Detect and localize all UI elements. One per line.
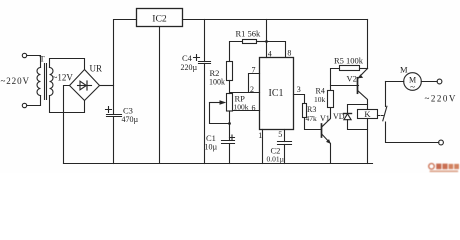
wire R1 left down to R2	[230, 42, 243, 62]
C4 plus sign	[194, 55, 200, 61]
svg-text:IC1: IC1	[269, 88, 284, 99]
svg-text:8: 8	[287, 48, 291, 57]
svg-text:K: K	[364, 109, 371, 119]
terminal upper-right	[437, 79, 442, 84]
node wiper junction	[228, 122, 231, 125]
svg-text:7: 7	[252, 66, 256, 75]
svg-text:~12V: ~12V	[53, 73, 74, 83]
capacitor C4	[199, 62, 211, 64]
wire pin7	[249, 74, 260, 93]
wire rail drop to V2 emitter	[367, 20, 369, 69]
watermark logo	[429, 164, 459, 173]
svg-text:5: 5	[278, 130, 282, 139]
V1 emitter arrow	[326, 139, 331, 144]
wire motor right	[421, 81, 437, 83]
svg-text:C4: C4	[182, 53, 193, 63]
svg-text:C1: C1	[206, 133, 216, 143]
V2 emitter	[358, 69, 368, 79]
svg-text:~220V: ~220V	[1, 76, 30, 86]
capacitor C1	[222, 141, 235, 144]
svg-text:100k: 100k	[209, 78, 225, 87]
svg-text:T: T	[40, 54, 46, 64]
svg-text:~: ~	[410, 82, 415, 92]
relay coil K box	[358, 110, 378, 119]
wire pin5 to C2	[284, 130, 286, 142]
resistor R5	[340, 66, 360, 71]
wire RP down to C1	[229, 111, 231, 141]
resistor R1	[243, 40, 257, 44]
svg-text:R5 100k: R5 100k	[334, 56, 364, 66]
svg-text:VD: VD	[333, 112, 345, 121]
terminal lower-left AC input	[22, 103, 26, 107]
wire bridge minus down to ground rail	[64, 86, 70, 164]
bridge inner diode	[78, 85, 92, 87]
RP wiper loop	[210, 103, 230, 124]
transistor V1 base bar	[321, 124, 323, 137]
relay contact blade	[383, 106, 387, 121]
wire pin2	[230, 92, 260, 94]
svg-text:3: 3	[297, 85, 301, 94]
wire IC2 ground pin	[159, 27, 161, 164]
wire secondary bottom to bridge	[50, 96, 85, 113]
svg-text:6: 6	[252, 103, 256, 112]
V2 collector	[358, 91, 368, 110]
wire motor to contact	[385, 82, 387, 107]
diode VD loop	[348, 105, 368, 130]
diode VD symbol	[344, 113, 352, 115]
wire C4 branch	[204, 20, 206, 62]
wire R2 to RP	[229, 81, 231, 94]
resistor R2	[227, 62, 233, 81]
V1 emitter	[322, 134, 331, 163]
svg-text:R3: R3	[307, 105, 316, 114]
svg-text:IC2: IC2	[152, 13, 167, 24]
wire K down to ground rail	[367, 119, 369, 164]
svg-text:2: 2	[250, 85, 254, 94]
wire R3 to V1 base	[305, 118, 322, 130]
bridge rectifier UR diamond	[70, 70, 100, 101]
capacitor C2	[278, 142, 292, 145]
svg-text:100k: 100k	[234, 103, 249, 112]
wire R5 right	[360, 68, 368, 70]
V1 collector	[322, 108, 331, 127]
resistor R4	[328, 91, 334, 108]
capacitor C3	[107, 115, 122, 117]
wire ground rail	[64, 163, 373, 165]
svg-text:470µ: 470µ	[122, 115, 139, 124]
wire pin8 branch	[267, 42, 286, 58]
motor M	[404, 73, 422, 91]
svg-text:R1 56k: R1 56k	[236, 28, 262, 38]
svg-text:R2: R2	[210, 68, 220, 78]
transformer T primary winding	[37, 68, 40, 96]
svg-text:47k: 47k	[306, 114, 318, 123]
svg-text:V1: V1	[320, 114, 330, 123]
transformer T core	[45, 64, 47, 100]
C3 plus sign	[106, 107, 112, 113]
C1 plus sign	[230, 135, 235, 140]
wire pin6	[233, 110, 260, 112]
transistor V2 base bar	[357, 78, 359, 93]
transformer T secondary winding	[50, 68, 54, 96]
svg-text:10k: 10k	[314, 95, 326, 104]
V2 emitter arrow	[358, 74, 363, 78]
wire top +V rail	[183, 19, 368, 21]
terminal upper-left AC input	[22, 53, 26, 57]
RP wiper arrow	[210, 102, 221, 104]
potentiometer RP	[227, 94, 233, 112]
relay contact dashed link	[378, 115, 384, 117]
svg-text:M: M	[400, 65, 408, 75]
resistor R3	[303, 104, 307, 118]
wire V2 base	[331, 85, 359, 87]
wire motor left	[386, 81, 404, 83]
svg-text:220µ: 220µ	[181, 63, 198, 72]
svg-text:1: 1	[258, 131, 262, 140]
svg-text:10µ: 10µ	[205, 143, 218, 152]
wire pin4 branch from rail	[266, 20, 268, 58]
svg-text:0.01µ: 0.01µ	[267, 154, 285, 163]
svg-text:~220V: ~220V	[425, 94, 457, 104]
regulator IC2	[137, 9, 183, 27]
svg-text:C3: C3	[123, 106, 133, 116]
wire +V vertical to IC2 input	[114, 20, 137, 115]
wire	[27, 56, 41, 68]
wire contact down to output terminal	[386, 122, 439, 143]
wire	[27, 96, 41, 106]
terminal lower-right	[439, 140, 444, 145]
wire pin1	[262, 130, 264, 164]
node R1 junction	[265, 40, 268, 43]
wire R1 right	[257, 41, 267, 43]
svg-text:4: 4	[268, 50, 272, 59]
wire bridge plus to rail	[100, 85, 114, 87]
timer IC1	[260, 58, 294, 130]
svg-text:V2: V2	[347, 74, 357, 84]
wire pin3	[294, 95, 305, 104]
wire R4 top to R5	[331, 69, 340, 91]
wire secondary top to bridge	[50, 59, 85, 70]
svg-text:UR: UR	[90, 64, 103, 74]
